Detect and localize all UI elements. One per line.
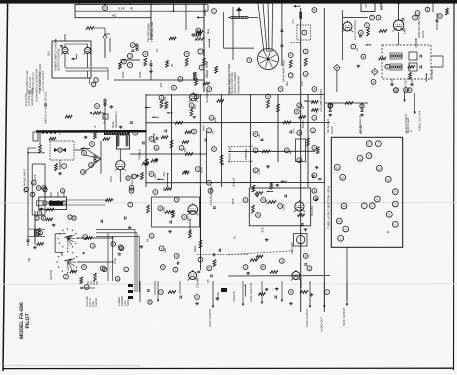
- svg-text:15: 15: [387, 178, 390, 181]
- svg-text:117V AC SUPPLY: 117V AC SUPPLY: [42, 70, 45, 91]
- svg-text:220K: 220K: [282, 204, 286, 211]
- svg-text:14: 14: [378, 167, 381, 170]
- svg-text:BASS: BASS: [301, 120, 305, 128]
- svg-text:FM POS: FM POS: [50, 270, 53, 280]
- svg-text:6AV6: 6AV6: [34, 174, 37, 181]
- svg-text:33K: 33K: [213, 117, 217, 122]
- svg-text:470K: 470K: [114, 258, 117, 264]
- svg-text:.05: .05: [257, 134, 261, 138]
- svg-text:.002: .002: [186, 216, 190, 222]
- svg-text:2.2M: 2.2M: [402, 27, 406, 34]
- svg-text:1K: 1K: [355, 48, 359, 52]
- svg-text:12AU7A: 12AU7A: [196, 277, 200, 288]
- svg-text:NO SIGNAL: NO SIGNAL: [327, 118, 330, 133]
- svg-text:350mmf: 350mmf: [233, 177, 236, 187]
- svg-text:.002: .002: [193, 104, 197, 110]
- svg-text:20: 20: [343, 205, 346, 208]
- svg-text:CHOKE: CHOKE: [217, 292, 220, 301]
- svg-text:FM RF: FM RF: [331, 125, 334, 134]
- svg-text:4A ECC83: 4A ECC83: [205, 89, 209, 103]
- svg-text:10K: 10K: [314, 109, 318, 114]
- svg-text:12AU7A: 12AU7A: [232, 291, 236, 302]
- svg-text:SWITCH IN OFF POSITION: SWITCH IN OFF POSITION: [45, 92, 48, 124]
- svg-text:117V 60C: 117V 60C: [130, 174, 134, 186]
- svg-text:5%: 5%: [183, 148, 187, 153]
- svg-text:FROM FRONT: FROM FRONT: [237, 75, 240, 93]
- svg-text:4 IF AMP ECC83: 4 IF AMP ECC83: [319, 89, 323, 112]
- svg-text:100K: 100K: [231, 198, 235, 205]
- svg-text:1Meg: 1Meg: [204, 9, 207, 16]
- svg-text:W: W: [130, 7, 133, 11]
- svg-text:68K: 68K: [265, 199, 269, 204]
- svg-text:AC: AC: [112, 14, 117, 18]
- svg-text:TREBLE: TREBLE: [244, 149, 248, 160]
- svg-text:IN OFF POSITION: IN OFF POSITION: [58, 49, 61, 71]
- svg-text:SELEN RECT: SELEN RECT: [115, 111, 118, 128]
- svg-text:100K: 100K: [138, 71, 142, 78]
- svg-text:1W: 1W: [146, 238, 150, 243]
- svg-text:21: 21: [338, 220, 341, 223]
- svg-text:TERMINAL 300: TERMINAL 300: [150, 21, 154, 42]
- svg-text:IF: IF: [94, 125, 97, 128]
- svg-text:1K: 1K: [288, 151, 292, 155]
- svg-text:PHONO: PHONO: [95, 298, 98, 307]
- svg-text:TAPE: TAPE: [127, 299, 130, 306]
- svg-text:16: 16: [394, 191, 397, 194]
- svg-text:TAPE MONITOR: TAPE MONITOR: [250, 283, 253, 302]
- svg-text:47K: 47K: [162, 171, 166, 176]
- svg-text:10: 10: [341, 176, 344, 179]
- svg-text:NO SIG: NO SIG: [360, 125, 363, 134]
- svg-text:250mmf TONE SW: 250mmf TONE SW: [229, 73, 232, 95]
- svg-text:6AV6: 6AV6: [193, 245, 197, 252]
- svg-text:4: 4: [410, 129, 412, 133]
- svg-text:13: 13: [368, 155, 371, 158]
- svg-text:.05: .05: [206, 279, 210, 283]
- svg-text:TREBLE 3mg: TREBLE 3mg: [229, 147, 232, 163]
- svg-text:5 1K: 5 1K: [118, 7, 126, 11]
- svg-text:ALIGN NOTES: ALIGN NOTES: [31, 88, 34, 106]
- svg-text:17: 17: [368, 143, 371, 146]
- svg-text:11: 11: [336, 166, 339, 169]
- svg-text:Meg: Meg: [207, 28, 210, 34]
- svg-text:220K: 220K: [199, 167, 203, 174]
- svg-text:56K: 56K: [286, 81, 289, 86]
- svg-text:A 100K: A 100K: [36, 93, 39, 102]
- svg-text:470: 470: [292, 128, 296, 133]
- svg-text:27V: 27V: [292, 19, 295, 24]
- svg-text:5%: 5%: [210, 186, 214, 191]
- svg-text:TUBE LAYOUT (BOTTOM VIEW): TUBE LAYOUT (BOTTOM VIEW): [327, 186, 331, 229]
- svg-text:AUDIO OUT: AUDIO OUT: [320, 317, 323, 332]
- svg-text:AM: AM: [27, 257, 31, 262]
- svg-text:PILOT: PILOT: [25, 313, 31, 329]
- svg-text:250K: 250K: [121, 71, 125, 78]
- svg-text:6BA6: 6BA6: [205, 70, 209, 78]
- svg-text:TAPE OUTPUT: TAPE OUTPUT: [209, 308, 212, 327]
- svg-text:.01: .01: [155, 48, 159, 52]
- svg-text:10K: 10K: [301, 81, 304, 86]
- svg-text:10K: 10K: [380, 5, 384, 10]
- svg-text:100K: 100K: [202, 49, 206, 56]
- svg-text:6X4: 6X4: [109, 176, 113, 182]
- svg-text:B+ 135V: B+ 135V: [104, 113, 107, 123]
- svg-text:47K: 47K: [159, 82, 163, 87]
- svg-text:.01: .01: [301, 105, 305, 109]
- svg-text:12AU7A: 12AU7A: [299, 277, 303, 288]
- svg-text:33K: 33K: [163, 248, 167, 253]
- svg-text:.05: .05: [170, 63, 174, 67]
- svg-text:2.2M: 2.2M: [257, 168, 261, 175]
- svg-text:150: 150: [162, 187, 166, 192]
- svg-text:AM-FM OUTPUT: AM-FM OUTPUT: [405, 113, 408, 134]
- svg-text:1W: 1W: [211, 130, 215, 135]
- svg-text:TAPE OUTPUT: TAPE OUTPUT: [306, 308, 309, 327]
- svg-text:.01: .01: [232, 236, 236, 240]
- svg-text:6AU6: 6AU6: [421, 30, 425, 38]
- svg-text:AUDIO OUT SYN: AUDIO OUT SYN: [419, 111, 422, 131]
- svg-text:6A RF AMP 6BC8: 6A RF AMP 6BC8: [282, 59, 286, 82]
- svg-text:47K: 47K: [261, 227, 265, 232]
- svg-text:TAPE OUTPUT: TAPE OUTPUT: [343, 307, 346, 326]
- svg-text:100K: 100K: [201, 125, 205, 132]
- svg-text:MODEL FA-690: MODEL FA-690: [19, 302, 25, 339]
- svg-text:12: 12: [359, 157, 362, 160]
- svg-text:68K: 68K: [153, 173, 157, 178]
- svg-text:TO PWR: TO PWR: [431, 69, 434, 80]
- svg-text:470: 470: [364, 2, 368, 7]
- svg-text:1ST FM LIMITER: 1ST FM LIMITER: [354, 20, 357, 40]
- svg-text:TREBLE: TREBLE: [138, 149, 142, 160]
- svg-text:300: 300: [48, 51, 51, 56]
